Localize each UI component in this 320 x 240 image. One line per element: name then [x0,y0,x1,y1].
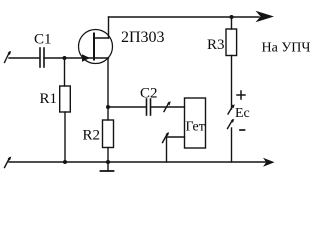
wire drain up [108,17,110,38]
node junction R1 rail [63,160,67,164]
node junction source C2 R2 [106,105,110,109]
connector mark bottom left [5,156,12,167]
wire Гет bottom pin [167,137,185,162]
wire source down [107,58,109,120]
arrow to IF output [256,11,275,22]
svg-text:На УПЧ: На УПЧ [262,41,311,56]
wire C2 to Гет [151,106,185,108]
wire gate [44,57,94,59]
block Гет heterodyne [185,98,206,148]
svg-text:Гет: Гет [186,120,205,135]
terminal mark +Ec [228,104,235,114]
label + [237,91,245,99]
wire R3 top lead [231,17,233,29]
capacitor C1 [40,48,44,67]
wire Ec minus to bottom rail [231,128,233,162]
resistor R1 [60,86,71,112]
wire bottom rail [9,161,266,163]
svg-text:Ес: Ес [235,106,250,121]
wire R1 top lead [64,58,66,86]
node junction C1-R1 [63,56,67,60]
svg-text:R2: R2 [83,128,101,144]
connector mark input [5,51,12,63]
resistor R3 [226,29,237,56]
capacitor C2 [147,99,151,115]
svg-text:2П303: 2П303 [121,29,165,46]
svg-text:C1: C1 [34,32,52,48]
svg-text:R1: R1 [40,91,58,107]
node junction top rail R3 [230,15,234,19]
connector mark C2 wire [164,101,171,111]
connector mark Гет wire [163,132,170,143]
wire to C2 [108,106,146,108]
arrow bottom rail [263,158,275,167]
wire R2 bottom lead [107,148,109,163]
terminal mark -Ec [228,119,235,129]
ground [101,162,114,171]
wire input left [9,57,40,59]
wire R1 bottom lead [64,112,66,162]
label - [240,129,245,131]
wire top rail [109,16,260,18]
svg-text:R3: R3 [207,37,225,53]
node junction R2 rail [106,160,110,164]
svg-text:C2: C2 [140,86,158,102]
wire R3 bottom to terminal [231,56,233,110]
transistor VT 2П303 [79,30,113,64]
resistor R2 [103,120,114,148]
